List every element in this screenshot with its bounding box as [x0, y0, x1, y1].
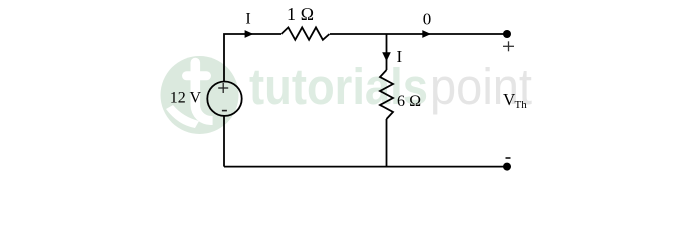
wire node A down to R2 [386, 34, 388, 70]
svg-text:I: I [397, 47, 403, 66]
wire top from left corner to 1-ohm resistor [224, 34, 281, 82]
svg-text:1 Ω: 1 Ω [287, 4, 314, 24]
svg-text:Th: Th [515, 99, 528, 111]
voltage source V1 [207, 82, 241, 116]
svg-text:I: I [245, 11, 250, 28]
terminal node dot top right [503, 30, 511, 38]
svg-text:0: 0 [423, 9, 432, 28]
wire from node A to terminal dot [387, 33, 508, 35]
current arrow I downward [382, 52, 391, 61]
svg-text:12 V: 12 V [170, 90, 202, 107]
current arrow 0 on top-right wire [422, 30, 431, 38]
wire from R1 to node A [330, 33, 387, 35]
resistor R2 6 ohm [380, 70, 393, 119]
current arrow I on top-left wire [245, 30, 254, 38]
wire from R2 to bottom wire [386, 119, 388, 167]
minus sign inside source [222, 110, 227, 112]
watermark logo icon [161, 56, 239, 134]
wire from source bottom to bottom-left corner [223, 116, 225, 167]
terminal node dot bottom right [503, 163, 511, 171]
svg-text:6 Ω: 6 Ω [397, 93, 421, 110]
minus terminal mark [506, 157, 511, 159]
bottom wire [224, 166, 507, 168]
plus sign inside source [218, 83, 228, 93]
resistor R1 1 ohm [282, 27, 330, 39]
plus terminal mark [503, 41, 514, 51]
